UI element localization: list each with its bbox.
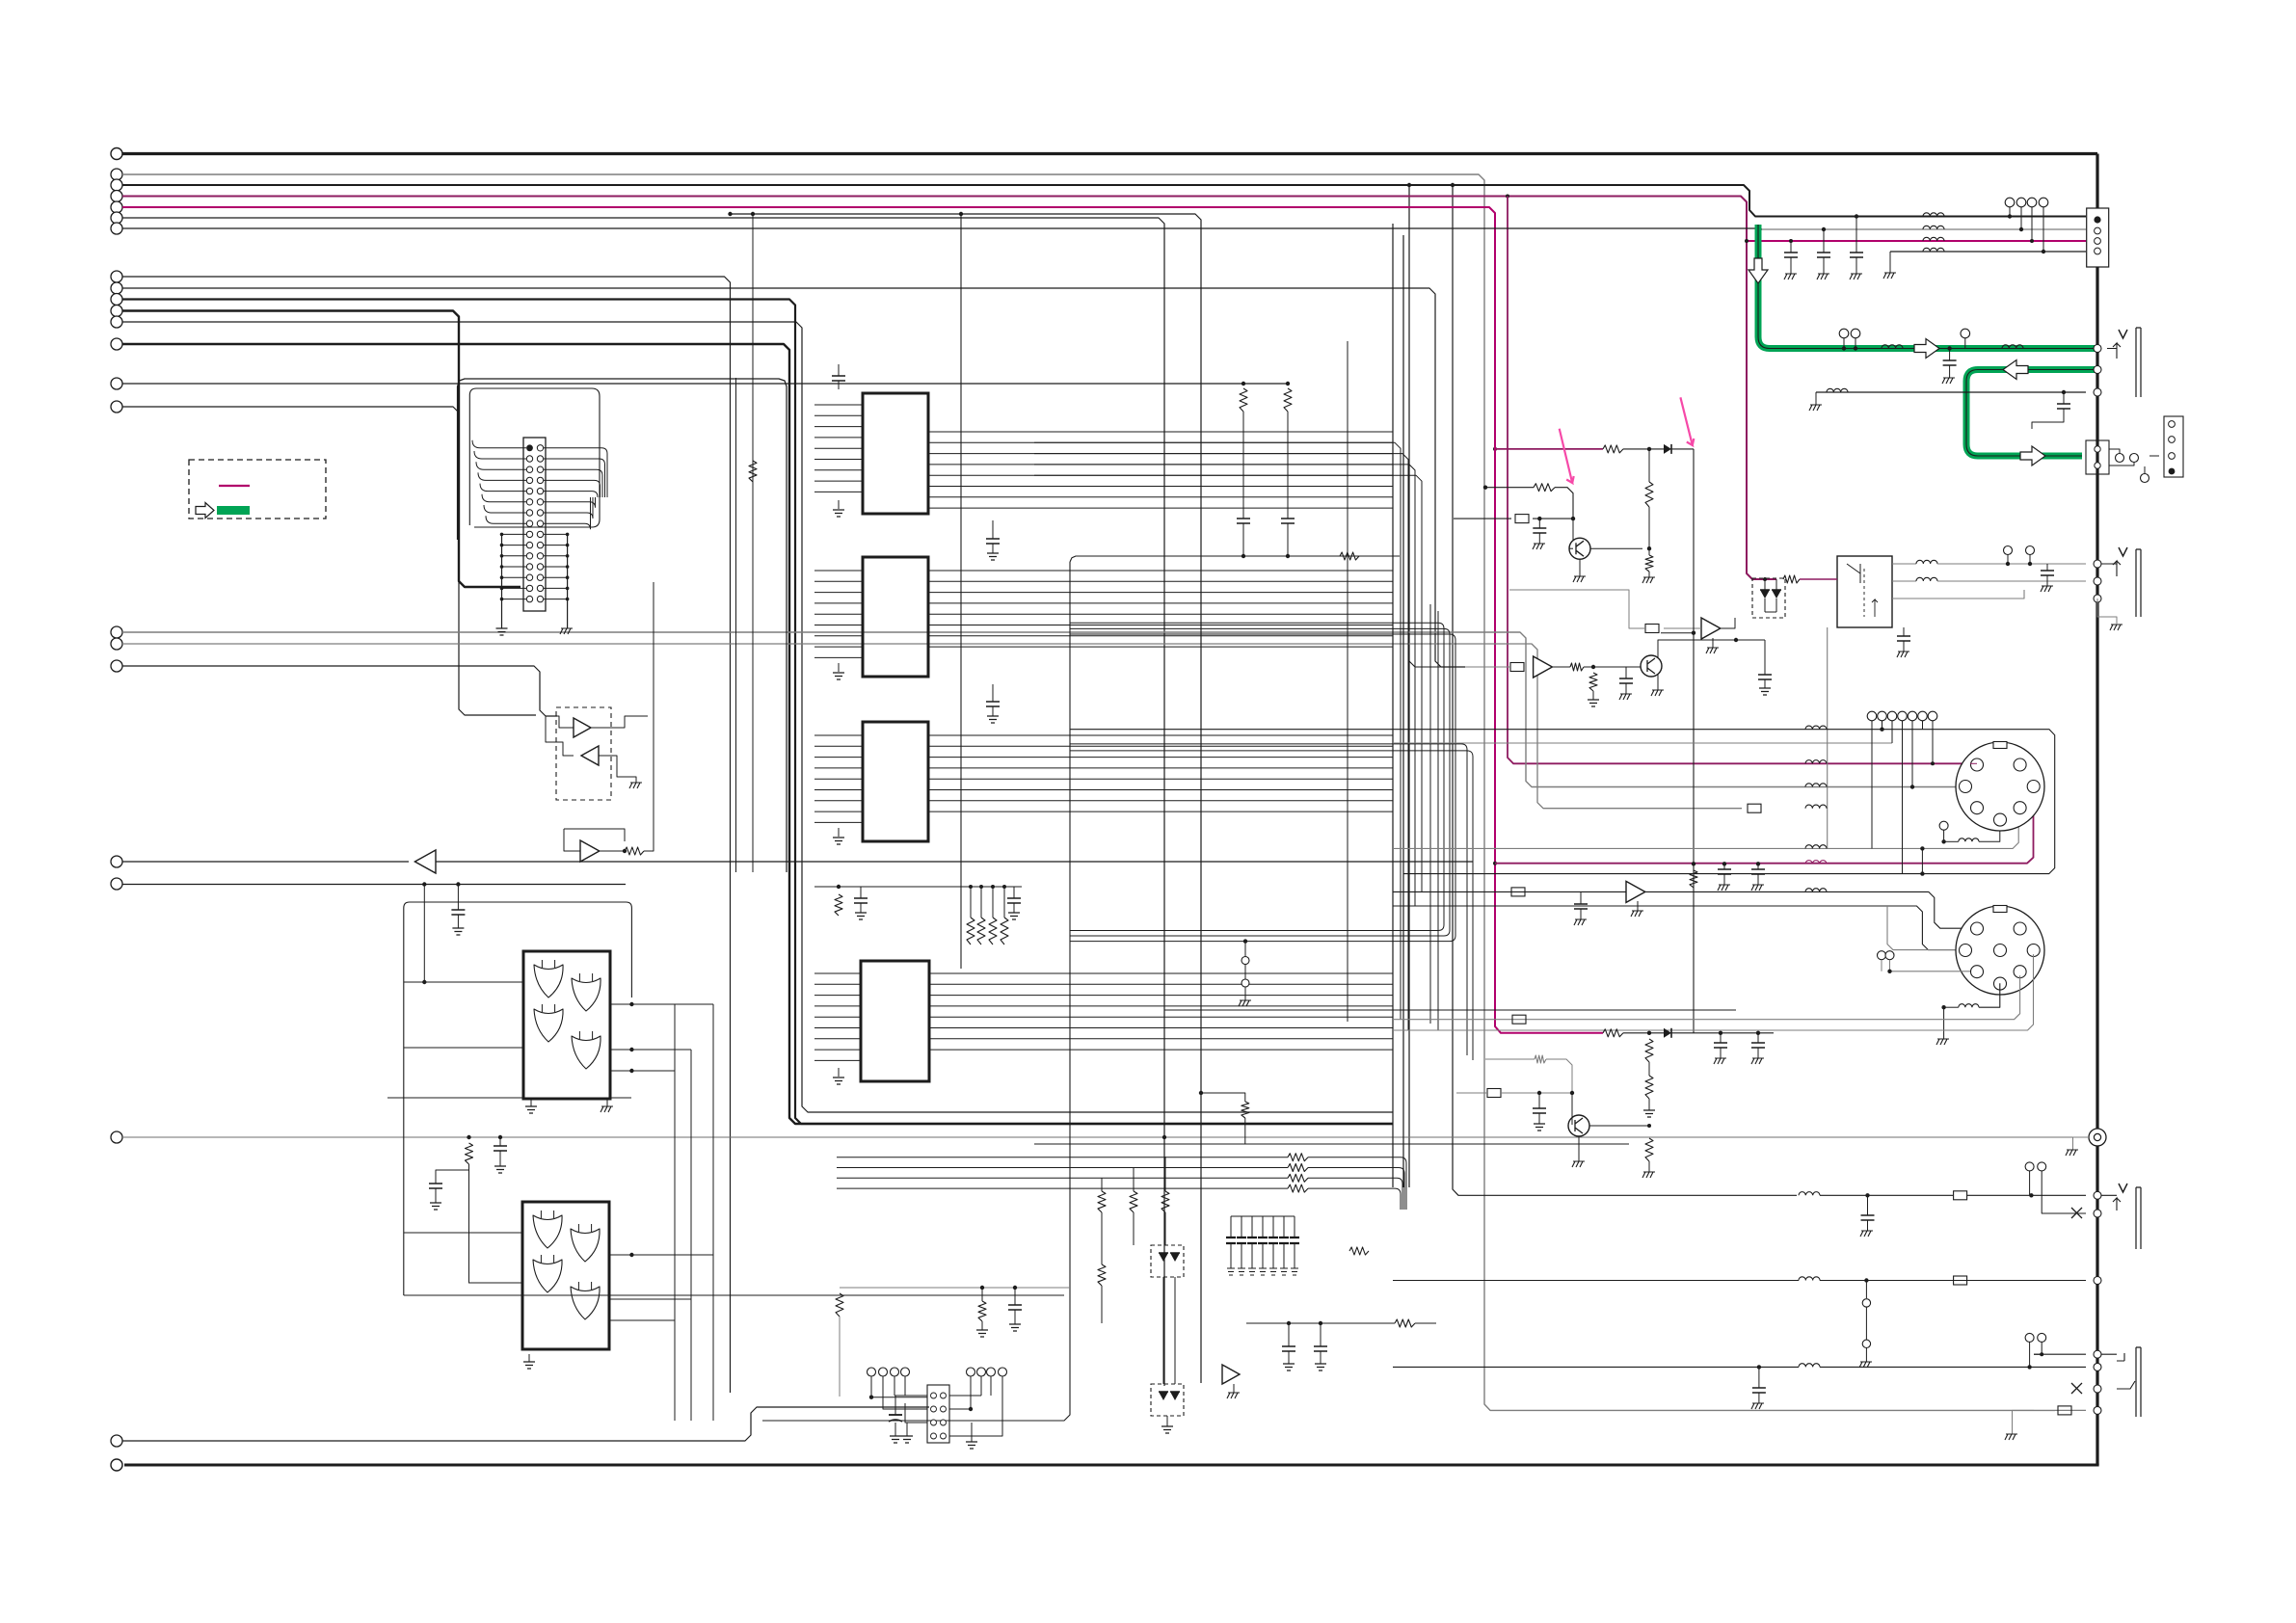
capacitor C-U1top (832, 376, 845, 381)
capacitor bank CB1 (1230, 1216, 1232, 1237)
ground C-lp (1534, 1124, 1545, 1131)
wire v780 (752, 214, 754, 872)
wire gate mid row (387, 1097, 631, 1099)
wire J1 right feeds (544, 448, 607, 497)
ground RCA (2066, 1150, 2078, 1156)
ground TP (1239, 1000, 1251, 1006)
resistor R-center (1241, 1102, 1249, 1118)
wire C-t398a stub (1242, 523, 1244, 556)
wire U4 right pins (929, 972, 1393, 974)
wire q2 row b (1553, 666, 1570, 668)
capacitor C-t398b (1281, 519, 1295, 523)
jack J-A sleeve (2136, 328, 2141, 397)
wire C-896a stub (1723, 864, 1725, 869)
wire Q4 right (1589, 1125, 1649, 1127)
wire gate frame bottom (404, 1294, 1064, 1296)
connector P3 body (2164, 416, 2183, 477)
terminal t894 (111, 856, 122, 867)
wire C-lp1a stub (1720, 1033, 1722, 1043)
wire lp base row b (1546, 1059, 1572, 1093)
wire din1 pin links (1970, 762, 1977, 764)
fuse F-lp (1487, 1089, 1501, 1098)
capacitor C-U1a (986, 539, 1000, 544)
connector pin JA2 (2094, 366, 2101, 374)
diode D-p1 (1664, 444, 1671, 454)
wire trio top joins (1101, 1178, 1103, 1191)
ground C-bj3 (1751, 1403, 1764, 1409)
wire U2 right pins (928, 570, 1393, 572)
capacitor C-U4a (854, 898, 868, 903)
wire U2 gnd stub (838, 663, 840, 672)
inductor L-K1 (1916, 560, 1937, 564)
junction bj1b (2029, 1193, 2033, 1197)
terminal din2b (1885, 951, 1894, 960)
wire buf loop (546, 716, 574, 756)
junction gate o3 (629, 1069, 633, 1073)
junction gate o1 (629, 1002, 633, 1006)
ground lp3 (1643, 1110, 1655, 1117)
resistor R-lp4 (1645, 1138, 1653, 1161)
ground R-q2b (1588, 700, 1599, 706)
wire C-lp stub (1538, 1093, 1540, 1108)
box dashed buffer pair (556, 707, 611, 800)
junction R-gate2 (467, 1135, 470, 1139)
terminal bj1a (2025, 1162, 2034, 1171)
wire din2 gnd drop (1943, 1007, 1945, 1039)
wire row880 gray (1393, 813, 2018, 848)
ground bj4 (2005, 1434, 2017, 1440)
resistor R-t398b (1284, 388, 1292, 412)
wire U10 gray feed (1509, 590, 1646, 628)
wire U10 gnd (1712, 638, 1714, 648)
wire green return (1966, 370, 2095, 457)
junction q3 (2030, 239, 2034, 243)
arrow pink 2 (1680, 397, 1694, 445)
junction lp rowb (1570, 1091, 1574, 1095)
wire t287 (122, 277, 731, 1393)
inductor L-838 (1805, 805, 1827, 809)
junction gate o2 (629, 1048, 633, 1051)
wire relay right3 (1892, 590, 2024, 599)
inductor block L1-L4 (1923, 213, 1944, 217)
resistor R-t398a (1240, 388, 1247, 412)
wire R-q2b stub (1592, 691, 1594, 700)
ground DIN2 (1936, 1039, 1949, 1045)
wire U1 right pins (928, 431, 1393, 433)
terminal group A circles (111, 169, 122, 180)
ground C-J2d (966, 1442, 977, 1449)
jack J-C sleeve (2136, 1187, 2141, 1249)
connector J2 body (927, 1385, 949, 1443)
junction t1180 (1162, 1135, 1166, 1139)
ground C-K1 (2041, 586, 2053, 592)
wire U12 gnd (1637, 901, 1639, 911)
junction m896a (1692, 862, 1695, 865)
wire Q1 emit (1579, 559, 1581, 576)
wire row940 (1393, 906, 1959, 950)
terminal bj2a (1862, 1299, 1870, 1307)
jack J-B sleeve (2136, 549, 2141, 617)
legend box (189, 460, 326, 519)
resistor R-q2 (1570, 663, 1584, 671)
wire Q4 base (1571, 1093, 1573, 1118)
ground U12 (1631, 911, 1643, 917)
terminal TP1 (1241, 957, 1249, 965)
wire bj2 drop2 (1865, 1307, 1867, 1340)
wire magenta t203 (122, 197, 1776, 580)
buffer U7b (581, 746, 599, 765)
wire g2 stub (1855, 338, 1856, 349)
wire R-J2b stub (981, 1288, 983, 1301)
capacitor C-407 (2057, 404, 2070, 409)
wire U10 in (1664, 627, 1701, 629)
relay K1 internals (1847, 564, 1860, 583)
wire U8 fb (564, 829, 625, 841)
jack J-A tip arrow (2107, 343, 2121, 359)
ground bj2 (1859, 1362, 1872, 1368)
wire TP stub (1244, 965, 1246, 980)
wire CB1 rail (1231, 1215, 1295, 1217)
wire x997 vertical (960, 214, 962, 969)
wire U5 gnd stub a (530, 1099, 532, 1106)
terminal group B circles (111, 271, 122, 282)
wire C-925a (1580, 891, 1582, 904)
wire d880 stub (1921, 848, 1923, 873)
inductor L-bj2 (1799, 1277, 1820, 1281)
connector P2 body (2086, 440, 2109, 474)
junction din2c (1941, 1005, 1945, 1009)
junction rail222c (728, 212, 732, 216)
wire U6 gnd stub (528, 1354, 530, 1362)
diode pair D3 (1760, 590, 1770, 599)
wire din2 low right (1393, 975, 2020, 1019)
inductor L-bj1 (1799, 1192, 1820, 1196)
jack J-D X (2071, 1383, 2082, 1394)
gates U5 (534, 965, 563, 998)
IC U5 body (523, 951, 610, 1099)
terminal TP2 (1241, 979, 1249, 987)
wire U9 out (1246, 1322, 1395, 1324)
ground C-bc2 (1315, 1364, 1326, 1370)
ground t917 (452, 928, 464, 935)
wire bj2 drop (1865, 1281, 1867, 1299)
junction g3 (1947, 346, 1951, 350)
wire C-p1 stub (1538, 533, 1540, 544)
ground C-lp1b (1751, 1058, 1764, 1064)
wire din2a stub (1881, 960, 1882, 971)
junction r407 (2062, 390, 2066, 394)
connector pin JA3 (2094, 388, 2101, 396)
fuse F-838 (1748, 804, 1761, 812)
fuse F-925 (1511, 888, 1525, 896)
ground trio1 (1784, 274, 1797, 279)
wire row873 (1944, 840, 1959, 842)
junction m896b (1722, 862, 1726, 865)
wire row1418 (1393, 1366, 1799, 1368)
wire relay feed (1800, 578, 1837, 580)
wire R-center stub (1244, 1118, 1246, 1144)
resistor R-p2 (1645, 482, 1653, 507)
wire C-U2a stub (992, 684, 994, 702)
wire buf in1 (546, 716, 574, 728)
inductor L-925 (1805, 889, 1827, 892)
wire row1418b (1820, 1366, 2086, 1368)
wire J1 frame staple (458, 379, 788, 872)
wire bottom frame (762, 562, 1070, 1421)
wire R-center link (1201, 1093, 1245, 1102)
wire RCA gnd (2073, 1137, 2090, 1150)
junction bc1 (1287, 1321, 1291, 1325)
IC U4 body (861, 961, 929, 1081)
wire lp base row (1485, 1058, 1535, 1060)
resistor R-p2b (1645, 555, 1653, 572)
wire t398 (122, 383, 1288, 385)
connector DIN2 center pin (1994, 945, 2007, 957)
buffer U10 (1701, 618, 1721, 639)
fuse F-bj1 (1954, 1191, 1967, 1200)
capacitor C-gate2 (429, 1184, 442, 1188)
wire right border bus upper (2096, 154, 2098, 209)
wire p1 branch (1661, 632, 1694, 634)
wire relay right2 (1892, 580, 1916, 582)
connector P3 pins (2169, 421, 2176, 428)
terminal t1180 (111, 1131, 122, 1143)
junction p1b (1692, 631, 1695, 635)
junction C-gate3 (498, 1135, 502, 1139)
wire green return core (1966, 370, 2095, 457)
transistor Q1 (1569, 538, 1590, 559)
ground U2 (833, 673, 844, 679)
terminal t691 (111, 660, 122, 672)
terminal row J2 (868, 1368, 876, 1376)
wire center rails (1070, 623, 1444, 930)
terminal P2a (2116, 454, 2124, 463)
connector J1 body (523, 438, 546, 611)
junction R-center (1199, 1091, 1203, 1095)
wire gate out verticals (675, 1004, 713, 1421)
wire t334 (122, 322, 1393, 1112)
wire t917 (122, 884, 626, 886)
wire t422 (122, 407, 536, 715)
wire t894 right part (436, 861, 1473, 863)
wire C-U1a stub (992, 520, 994, 539)
wire U2 left pins (814, 570, 863, 572)
ground trio3 (1850, 274, 1862, 279)
ground C-U2a (987, 716, 999, 723)
junction Q4 (1647, 1124, 1651, 1128)
resistor R-bc2 (1349, 1247, 1369, 1255)
ground C-g (1942, 378, 1955, 384)
arrow green down (1749, 258, 1768, 283)
buffer U-left arrow (414, 850, 436, 873)
junction t917b (456, 882, 460, 886)
connector pin JE2 (2094, 1363, 2101, 1370)
wire quad stubs (2009, 207, 2011, 217)
wire C-gate2 stub (436, 1170, 469, 1184)
ground U9 (1227, 1393, 1240, 1398)
wire D3 bottom (1765, 611, 1776, 613)
junction lp1e (1719, 1031, 1722, 1035)
connector DIN DIN2 (1956, 906, 2044, 995)
jack J-B tip arrow (2101, 561, 2121, 576)
legend magenta sample (219, 485, 250, 487)
wire bundle v1461 (1034, 454, 1408, 1030)
connector pin JB2 (2094, 577, 2101, 585)
junction magenta 1551-895 (1493, 862, 1497, 865)
ground U4 (833, 1078, 844, 1084)
box dashed diode pair D2 (1151, 1384, 1184, 1416)
junction q4 (2042, 250, 2045, 253)
wire row771 (1393, 742, 1892, 744)
junction R-p2 (1647, 546, 1651, 550)
terminal TOP-L (111, 148, 122, 160)
junction p1 (1647, 447, 1651, 451)
IC U6 body (522, 1202, 609, 1349)
capacitor C-q2 (1619, 678, 1633, 683)
relay K1 body (1837, 556, 1892, 627)
IC U3 body (863, 722, 928, 841)
wire J2 gnd stub (906, 1423, 908, 1436)
ground C-U4b (1008, 913, 1020, 919)
terminal bj3a (2025, 1333, 2034, 1342)
jack J-A V (2119, 330, 2127, 338)
ground C-bc1 (1283, 1364, 1295, 1370)
ground C-q3 (1759, 688, 1771, 695)
inductor L-din2 (1959, 1004, 1979, 1008)
wire rail577 (1070, 556, 1400, 562)
ground C-896b (1751, 885, 1764, 891)
wire row407 left stub (1815, 392, 1817, 405)
jack J-D sleeve (2136, 1347, 2141, 1417)
diode pair D2 (1159, 1392, 1168, 1400)
connector pin JE3 (2094, 1385, 2101, 1393)
wire lp1 mid (1623, 1032, 1664, 1034)
wire row2 gray (1762, 228, 2086, 230)
wire gate feed c (404, 1232, 522, 1234)
junction lp1f (1756, 1031, 1760, 1035)
wire rail222 (731, 214, 1202, 1383)
wire bj1 circ stubs (2029, 1171, 2031, 1195)
wire U1 gnd stub (838, 500, 840, 509)
junction t398b (1286, 382, 1290, 386)
wire gate frame (404, 902, 632, 1295)
terminal group DIN (1867, 711, 1877, 721)
connector RCA body (2089, 1129, 2106, 1146)
junction rail222a (751, 212, 755, 216)
wire p3 down (1538, 519, 1540, 528)
junction bc2 (1319, 1321, 1322, 1325)
capacitor C-896a (1718, 869, 1731, 874)
fuse F-1058 (1512, 1015, 1526, 1024)
wire green core (1758, 225, 2095, 349)
wire k2 stub (2029, 555, 2031, 565)
arrow green left (2003, 360, 2028, 380)
wire p1 mid (1623, 448, 1664, 450)
connector pin JB3 (2094, 595, 2101, 602)
wire R-trio2 stub (1101, 1212, 1103, 1264)
inductor L-896 (1805, 861, 1827, 865)
diode D-lp1 (1664, 1028, 1671, 1038)
terminal BOT-L (111, 1459, 122, 1471)
wire bj3 stubs (2029, 1342, 2031, 1367)
capacitor C-g (1943, 360, 1957, 365)
wire bj2 drop3 (1865, 1348, 1867, 1363)
wire J1 frame staple2 (469, 388, 600, 527)
wire C-g stub (1949, 349, 1951, 361)
arrow pink 1 (1560, 429, 1574, 483)
inductor L-407 (1827, 388, 1848, 392)
ground C-K2 (1897, 652, 1909, 657)
junction J2c (1013, 1286, 1017, 1290)
wire R-t398b stub (1287, 412, 1289, 519)
wire p row2b (1555, 488, 1573, 519)
resistor R-trio2 (1098, 1264, 1106, 1286)
resistor R-q2b (1589, 673, 1597, 691)
junction tr3 (1855, 214, 1858, 218)
capacitor C-U4b (1007, 898, 1021, 903)
box dashed diode pair D3 (1752, 578, 1785, 618)
wire Q1 coll (1590, 547, 1642, 549)
wire C-g stub2 (1949, 365, 1951, 378)
wire Q4 emit (1578, 1136, 1580, 1161)
connector P1 pin1 (2094, 216, 2100, 223)
junction D3a (1763, 577, 1767, 581)
wire C-bj3 (1758, 1367, 1760, 1388)
wire J2 gnd stub2 (971, 1423, 973, 1442)
buffer U7a (574, 718, 591, 737)
junction k1 (2006, 562, 2010, 566)
junction Q2c (1734, 638, 1738, 642)
wire din drops (1871, 721, 1873, 849)
wire k1 stub (2007, 555, 2009, 565)
jack J-C X (2071, 1208, 2082, 1218)
junction p3 (1537, 517, 1541, 520)
resistor R-J2a (836, 1293, 843, 1317)
ground C-q2 (1619, 694, 1632, 700)
capacitor C-t398a (1237, 519, 1250, 523)
ground Q1 (1573, 576, 1586, 582)
terminal k1 (2004, 546, 2013, 555)
wire q2 row c (1584, 666, 1641, 668)
junction t398a (1241, 382, 1245, 386)
wire C-U1top stub (838, 364, 840, 376)
junction t192-1462 (1407, 183, 1411, 187)
wire J2 rail top (840, 1287, 1070, 1289)
IC U1 body (863, 393, 928, 514)
ground Q2 (1651, 690, 1664, 696)
wire p row2 (1485, 487, 1534, 489)
wire U3 gnd stub (838, 828, 840, 837)
wire D2 gnd stub (1166, 1416, 1168, 1426)
wire magenta t215 (122, 207, 1603, 1033)
wire D1 to D2 (1162, 1277, 1164, 1384)
ground lp4 (1642, 1172, 1655, 1178)
resistor R-780 (749, 461, 757, 482)
resistor array R-U4 (967, 918, 974, 945)
fuse F-u10 (1645, 625, 1659, 633)
wire gray t656 (122, 632, 1959, 787)
junction p row2 (1483, 486, 1487, 490)
junction d873 (1941, 839, 1945, 843)
wire relay right2b (1937, 580, 2086, 582)
terminal bj3b (2038, 1333, 2046, 1342)
wire p1 end (1671, 448, 1694, 450)
terminal d856 (1939, 821, 1948, 830)
junction din2 (1887, 970, 1891, 973)
resistor R-U4a (835, 894, 842, 916)
buffer U11 (1534, 656, 1553, 678)
diode pair D1 (1159, 1253, 1168, 1262)
